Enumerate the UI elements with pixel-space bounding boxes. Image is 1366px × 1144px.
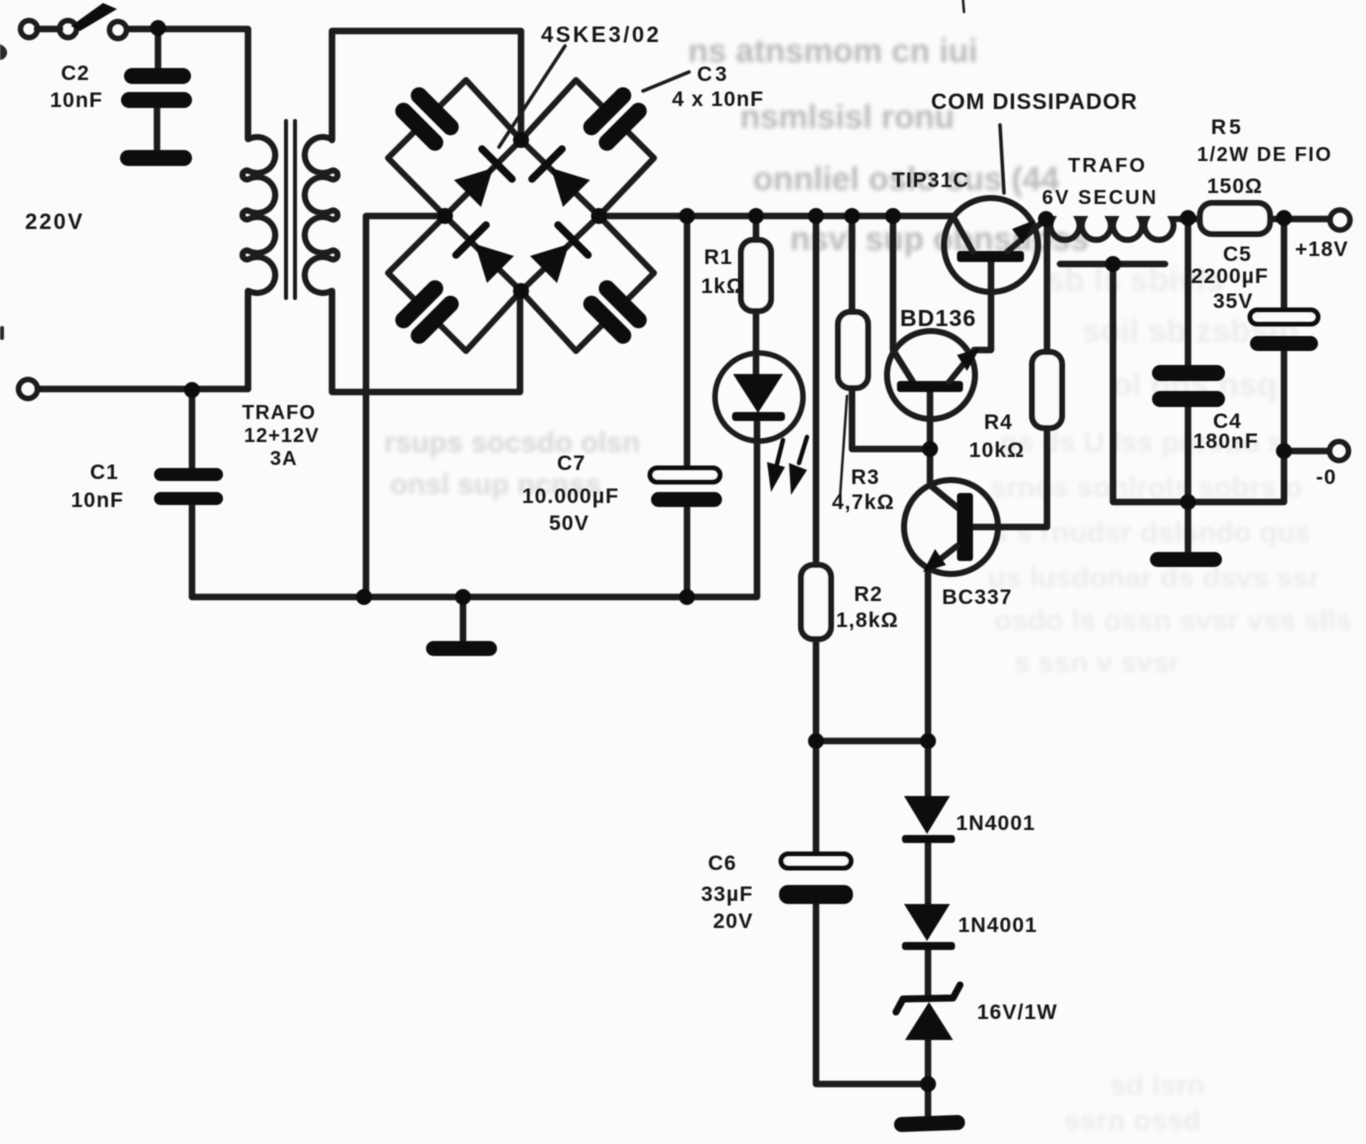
svg-text:C5: C5 bbox=[1223, 243, 1252, 266]
svg-text:C7: C7 bbox=[557, 452, 586, 475]
svg-text:4SKE3/02: 4SKE3/02 bbox=[541, 22, 661, 47]
svg-text:TRAFO: TRAFO bbox=[1068, 155, 1147, 177]
svg-text:rsups socsdo olsn: rsups socsdo olsn bbox=[384, 427, 640, 459]
svg-text:TRAFO: TRAFO bbox=[242, 402, 316, 424]
svg-text:1N4001: 1N4001 bbox=[956, 812, 1036, 835]
svg-text:ns atnsmom cn iui: ns atnsmom cn iui bbox=[688, 32, 978, 69]
svg-text:BC337: BC337 bbox=[942, 586, 1012, 609]
svg-text:C1: C1 bbox=[90, 461, 119, 484]
svg-text:50V: 50V bbox=[549, 512, 589, 535]
svg-text:35V: 35V bbox=[1213, 290, 1253, 313]
svg-text:20V: 20V bbox=[713, 910, 753, 933]
svg-text:2200µF: 2200µF bbox=[1191, 265, 1269, 288]
svg-text:R3: R3 bbox=[851, 466, 880, 489]
svg-text:osdo ls ossn svsr vss slls: osdo ls ossn svsr vss slls bbox=[994, 605, 1352, 637]
svg-text:-0: -0 bbox=[1316, 466, 1337, 489]
svg-text:R5: R5 bbox=[1211, 116, 1244, 139]
svg-text:1N4001: 1N4001 bbox=[958, 914, 1038, 937]
svg-text:4 x 10nF: 4 x 10nF bbox=[672, 88, 764, 111]
svg-text:16V/1W: 16V/1W bbox=[977, 1001, 1058, 1024]
svg-text:us lusdonar ds dsvs ssr: us lusdonar ds dsvs ssr bbox=[988, 562, 1320, 594]
svg-text:6V SECUN: 6V SECUN bbox=[1042, 187, 1158, 209]
svg-text:R2: R2 bbox=[854, 583, 883, 606]
svg-text:sd lsrn: sd lsrn bbox=[1110, 1070, 1205, 1102]
svg-text:4,7kΩ: 4,7kΩ bbox=[832, 491, 895, 514]
svg-text:12+12V: 12+12V bbox=[244, 425, 320, 447]
svg-text:33µF: 33µF bbox=[701, 883, 753, 906]
svg-text:10.000µF: 10.000µF bbox=[522, 485, 619, 508]
svg-text:TIP31C: TIP31C bbox=[892, 169, 969, 192]
svg-text:+18V: +18V bbox=[1295, 238, 1349, 261]
svg-text:150Ω: 150Ω bbox=[1207, 175, 1263, 198]
svg-text:10kΩ: 10kΩ bbox=[969, 439, 1025, 462]
svg-text:s ssn v svsr: s ssn v svsr bbox=[1014, 647, 1180, 679]
svg-text:R4: R4 bbox=[984, 411, 1013, 434]
svg-text:C6: C6 bbox=[708, 852, 737, 875]
svg-text:10nF: 10nF bbox=[50, 89, 103, 112]
svg-text:BD136: BD136 bbox=[900, 305, 977, 331]
svg-text:ssrn ossd: ssrn ossd bbox=[1064, 1105, 1201, 1137]
svg-text:COM DISSIPADOR: COM DISSIPADOR bbox=[931, 89, 1138, 114]
svg-text:3A: 3A bbox=[270, 448, 298, 470]
svg-text:10nF: 10nF bbox=[71, 489, 124, 512]
svg-text:1,8kΩ: 1,8kΩ bbox=[836, 609, 899, 632]
svg-text:C2: C2 bbox=[61, 62, 90, 85]
svg-text:nsmlsisl ronu: nsmlsisl ronu bbox=[740, 98, 955, 135]
svg-text:s s rnudsr dslsndo qus: s s rnudsr dslsndo qus bbox=[992, 517, 1311, 549]
svg-text:C3: C3 bbox=[697, 63, 730, 86]
svg-text:220V: 220V bbox=[25, 209, 84, 234]
svg-text:1kΩ: 1kΩ bbox=[701, 275, 744, 298]
svg-text:180nF: 180nF bbox=[1193, 430, 1259, 453]
svg-text:R1: R1 bbox=[704, 246, 733, 269]
svg-text:1/2W DE FIO: 1/2W DE FIO bbox=[1197, 144, 1332, 166]
